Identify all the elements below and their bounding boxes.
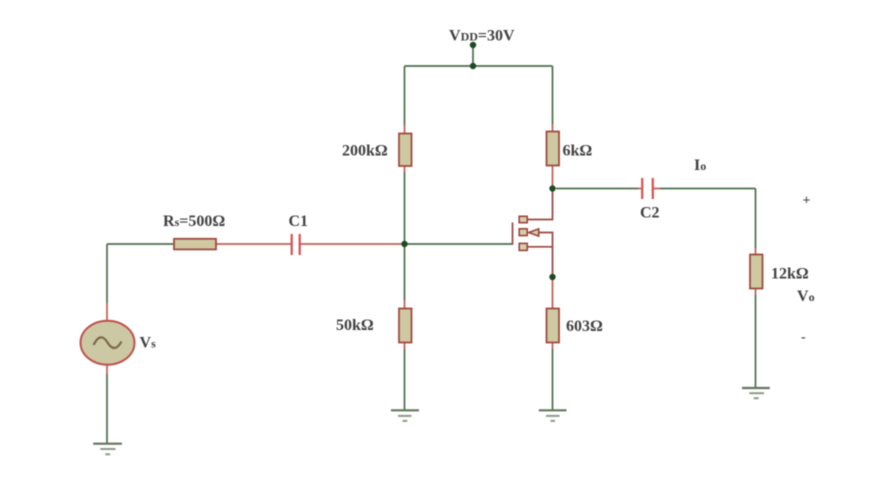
- svg-text:-: -: [801, 330, 806, 345]
- svg-text:Io: Io: [694, 157, 706, 174]
- svg-text:+: +: [803, 194, 811, 209]
- svg-text:C2: C2: [640, 205, 660, 222]
- svg-text:603Ω: 603Ω: [566, 318, 603, 335]
- svg-text:Rs=500Ω: Rs=500Ω: [163, 213, 225, 230]
- svg-text:VDD=30V: VDD=30V: [449, 28, 515, 45]
- svg-text:Vo: Vo: [797, 288, 815, 305]
- svg-text:12kΩ: 12kΩ: [771, 266, 809, 283]
- svg-text:C1: C1: [289, 213, 309, 230]
- svg-text:6kΩ: 6kΩ: [563, 143, 593, 160]
- svg-text:200kΩ: 200kΩ: [342, 143, 388, 160]
- svg-text:Vs: Vs: [140, 335, 157, 352]
- svg-text:50kΩ: 50kΩ: [336, 317, 374, 334]
